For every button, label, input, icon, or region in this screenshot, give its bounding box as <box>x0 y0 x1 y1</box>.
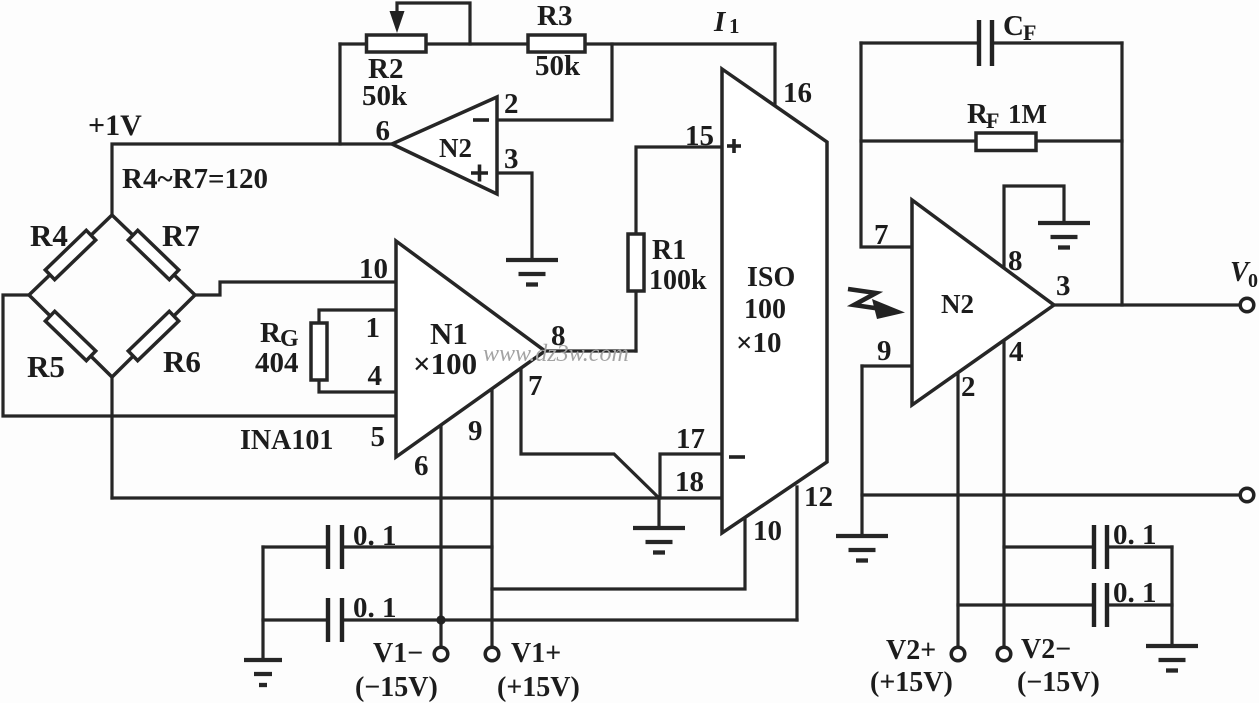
svg-text:R6: R6 <box>163 344 201 379</box>
svg-text:6: 6 <box>376 115 391 147</box>
svg-text:2: 2 <box>961 371 976 403</box>
svg-text:17: 17 <box>676 423 705 455</box>
svg-text:V2+: V2+ <box>886 635 936 666</box>
svg-text:N2: N2 <box>941 289 974 319</box>
svg-text:100: 100 <box>744 294 786 325</box>
svg-text:I: I <box>713 6 727 38</box>
svg-text:+1V: +1V <box>88 109 142 142</box>
svg-text:(−15V): (−15V) <box>1017 667 1100 698</box>
svg-text:1: 1 <box>729 14 740 38</box>
svg-text:www.dz3w.com: www.dz3w.com <box>483 341 629 367</box>
svg-text:ISO: ISO <box>747 262 795 293</box>
svg-text:404: 404 <box>255 347 299 379</box>
svg-text:V2−: V2− <box>1021 634 1071 665</box>
svg-text:6: 6 <box>414 450 429 482</box>
svg-text:V1−: V1− <box>373 638 423 669</box>
svg-text:4: 4 <box>1009 336 1024 368</box>
svg-text:4: 4 <box>368 360 383 392</box>
svg-text:R7: R7 <box>162 218 200 253</box>
svg-text:N2: N2 <box>439 133 472 163</box>
svg-text:3: 3 <box>504 143 519 175</box>
svg-text:12: 12 <box>804 481 833 513</box>
svg-text:0. 1: 0. 1 <box>353 592 397 624</box>
svg-text:F: F <box>986 108 999 133</box>
svg-text:9: 9 <box>877 335 892 367</box>
svg-text:10: 10 <box>753 515 782 547</box>
svg-text:8: 8 <box>1008 245 1023 277</box>
svg-text:0. 1: 0. 1 <box>1113 519 1157 551</box>
svg-text:10: 10 <box>359 253 388 285</box>
svg-text:7: 7 <box>874 219 889 251</box>
svg-text:F: F <box>1023 20 1036 45</box>
svg-text:(−15V): (−15V) <box>355 672 438 703</box>
svg-text:18: 18 <box>675 466 704 498</box>
svg-text:0. 1: 0. 1 <box>1113 577 1157 609</box>
svg-text:1: 1 <box>366 312 381 344</box>
svg-text:1M: 1M <box>1008 99 1047 129</box>
svg-text:(+15V): (+15V) <box>870 667 953 698</box>
svg-text:9: 9 <box>468 415 483 447</box>
svg-text:(+15V): (+15V) <box>497 672 580 703</box>
svg-text:2: 2 <box>504 88 519 120</box>
svg-text:×100: ×100 <box>413 346 477 381</box>
svg-text:INA101: INA101 <box>240 425 333 456</box>
svg-text:×10: ×10 <box>736 327 782 359</box>
svg-text:R3: R3 <box>537 0 572 32</box>
svg-text:R: R <box>260 317 282 349</box>
svg-text:V1+: V1+ <box>511 638 561 669</box>
svg-text:0: 0 <box>1248 270 1258 292</box>
svg-text:100k: 100k <box>649 265 707 296</box>
svg-text:3: 3 <box>1056 270 1071 302</box>
svg-text:7: 7 <box>528 370 543 402</box>
svg-text:R4~R7=120: R4~R7=120 <box>122 163 268 195</box>
svg-text:5: 5 <box>371 421 386 453</box>
svg-text:R4: R4 <box>30 218 68 253</box>
svg-text:R1: R1 <box>652 235 686 266</box>
svg-text:C: C <box>1003 10 1024 42</box>
svg-text:16: 16 <box>783 77 812 109</box>
svg-text:0. 1: 0. 1 <box>353 520 397 552</box>
svg-text:50k: 50k <box>362 80 408 112</box>
svg-text:50k: 50k <box>535 50 581 82</box>
svg-text:15: 15 <box>685 120 714 152</box>
svg-text:R5: R5 <box>27 349 65 384</box>
